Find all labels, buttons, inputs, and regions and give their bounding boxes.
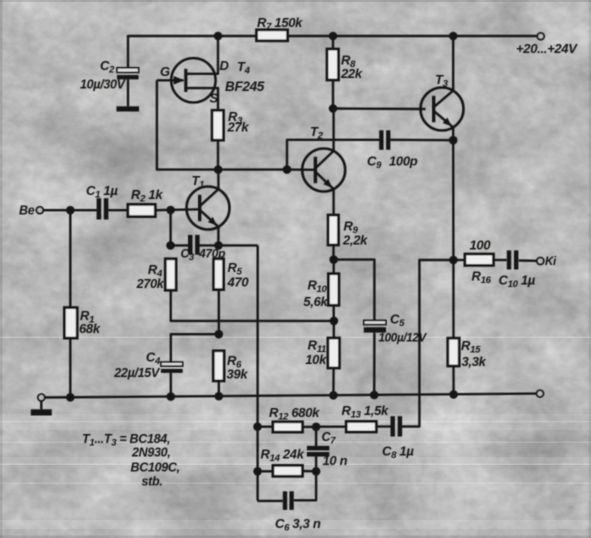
svg-text:C6​ 3,3 n: C6​ 3,3 n: [275, 516, 321, 534]
node R6 top junction: [215, 330, 224, 339]
wire C2 to ground: [127, 79, 129, 106]
transistor T4 gate arrow: [174, 76, 185, 85]
node T3 collector-rail junction: [449, 32, 458, 41]
svg-text:470: 470: [227, 275, 250, 290]
label T4: [237, 59, 251, 77]
wire T4 drain lead: [186, 36, 218, 74]
wire C6 right lead: [294, 471, 316, 500]
label C10 1u: [499, 273, 536, 291]
wire T1 emitter: [217, 227, 219, 246]
label T1: [192, 173, 205, 191]
wire R3 to node: [217, 140, 219, 169]
label C9: [367, 154, 382, 172]
wire R11 leads: [332, 321, 335, 395]
terminal +24V: [537, 33, 544, 40]
label R5: [228, 260, 243, 278]
label C1 1u: [86, 183, 118, 201]
wire R4 bottom lead: [171, 290, 334, 321]
label R12 680k: [269, 405, 320, 423]
resistor R16: [465, 254, 494, 265]
capacitor C8: [391, 416, 403, 436]
label C3: [181, 247, 195, 264]
resistor R15: [448, 338, 459, 366]
wire T3 collector: [452, 36, 454, 91]
svg-text:68k: 68k: [79, 321, 101, 336]
svg-text:BF245: BF245: [225, 79, 265, 94]
svg-text:10µ/30V: 10µ/30V: [80, 78, 127, 92]
label C3 value 470p: [198, 247, 225, 261]
label R16 value 100: [470, 238, 492, 253]
node C3 left junction: [166, 241, 175, 250]
ground symbol: [31, 402, 52, 416]
wire gate loop: [157, 80, 287, 169]
wire T3 emitter lead: [452, 127, 454, 140]
label R4: [148, 262, 163, 280]
node drain-rail junction: [214, 32, 223, 41]
resistor R14: [273, 465, 303, 476]
wire C4 top lead: [171, 334, 219, 362]
transistor T3: [421, 88, 464, 131]
svg-text:100: 100: [470, 238, 492, 253]
capacitor C4: [161, 362, 183, 373]
node R15-rail junction: [449, 390, 458, 399]
label T3: [435, 72, 449, 90]
label C7 value 10n: [323, 453, 348, 468]
wire C8 feedback: [402, 260, 453, 427]
wire C8-R13: [376, 425, 390, 427]
node R14 right junction: [312, 467, 321, 476]
label R15 value 3,3k: [462, 354, 487, 369]
node T1 base junction: [166, 206, 175, 215]
wire T2 collector: [332, 109, 334, 151]
node R12 left junction: [253, 422, 262, 431]
label Be: [19, 204, 35, 218]
wire top +24V supply rail: [128, 35, 536, 37]
wire C3 left lead: [171, 244, 189, 246]
wire R15 bottom lead: [452, 366, 455, 394]
svg-text:Ki: Ki: [545, 256, 557, 268]
svg-text:D: D: [220, 58, 230, 73]
node T3 emitter junction: [449, 136, 458, 145]
label C6 3,3n: [275, 516, 321, 534]
label T2: [310, 124, 324, 142]
wire output column upper: [452, 140, 455, 260]
label R13 1,5k: [342, 403, 390, 421]
wire R13 left lead: [316, 426, 346, 428]
node R6-rail junction: [215, 392, 224, 401]
wire R8 top lead: [332, 36, 334, 49]
label R2 1k: [131, 187, 163, 205]
resistor R9: [328, 215, 338, 245]
node R1 tap: [66, 206, 75, 215]
wire R14 left column: [256, 427, 258, 501]
svg-text:C8​ 1µ: C8​ 1µ: [382, 444, 414, 462]
svg-text:R7​ 150k: R7​ 150k: [257, 15, 303, 33]
resistor R1: [64, 308, 77, 339]
label G: [160, 64, 170, 79]
svg-text:BC109C,: BC109C,: [131, 461, 180, 475]
label Ki: [545, 256, 557, 268]
capacitor C2: [117, 68, 139, 80]
capacitor C9: [379, 130, 390, 150]
label R15: [461, 338, 481, 356]
label C5 value 100u/12V: [379, 332, 428, 345]
label C5: [390, 312, 405, 330]
wire emitter node to feedback corner: [219, 244, 258, 246]
wire T1 collector: [217, 170, 219, 190]
resistor R7: [257, 30, 288, 41]
wire C10 to Ki: [519, 259, 537, 262]
label C4 value 22u/15V: [113, 366, 161, 380]
wire T2 emitter: [332, 189, 334, 215]
label BF245: [225, 79, 265, 94]
resistor R3: [212, 110, 223, 140]
label note line2: [131, 446, 171, 460]
wire T1 feedback column: [256, 245, 259, 426]
label R10: [307, 278, 327, 296]
wire R14 right lead: [303, 470, 317, 473]
svg-text:C10​ 1µ: C10​ 1µ: [499, 273, 536, 291]
svg-text:5,6k: 5,6k: [303, 294, 328, 309]
transistor T1: [187, 187, 230, 230]
capacitor C6: [283, 491, 294, 510]
node R14 left junction: [253, 467, 262, 476]
svg-text:10k: 10k: [305, 352, 327, 367]
svg-text:R13​ 1,5k: R13​ 1,5k: [342, 403, 390, 421]
label +20...+24V: [516, 41, 578, 56]
resistor R10: [328, 274, 339, 306]
label note line4: [142, 475, 163, 489]
capacitor C5: [364, 320, 386, 332]
op FET T4 circle: [171, 58, 215, 102]
wire R12 left lead: [258, 426, 273, 428]
wire C4 bottom lead: [170, 373, 172, 397]
resistor R2: [128, 204, 155, 216]
wire to C5: [334, 260, 375, 321]
scan bands: [0, 337, 591, 530]
node C5-rail junction: [370, 391, 379, 400]
svg-text:stb.: stb.: [142, 475, 163, 489]
svg-text:S: S: [210, 91, 219, 106]
label R7 150k: [257, 15, 303, 33]
wire C9 right: [390, 139, 454, 142]
label R6: [227, 353, 242, 371]
wire C1 to R2: [108, 209, 128, 211]
svg-text:2N930,: 2N930,: [131, 446, 171, 460]
terminal Ki output: [537, 258, 544, 265]
label C2: [100, 58, 115, 76]
label R10 value 5,6k: [303, 294, 328, 309]
resistor R4: [165, 259, 176, 290]
label R9 value 2,2k: [342, 233, 368, 248]
label R8 value 22k: [340, 66, 363, 81]
wire C7 bottom lead: [315, 456, 317, 471]
wire C3 right lead: [199, 244, 218, 246]
label C9 value 100p: [389, 154, 418, 169]
label R9: [344, 219, 359, 237]
label R16: [472, 269, 492, 287]
node C4-rail junction: [167, 392, 176, 401]
svg-text:22µ/15V: 22µ/15V: [113, 366, 161, 380]
label R8: [341, 53, 356, 71]
wire C5 bottom lead: [373, 333, 376, 395]
wire R2 to T1 base: [155, 208, 200, 211]
capacitor C7: [307, 446, 329, 457]
wire C2 to rail: [127, 35, 129, 68]
label R6 value 39k: [227, 367, 249, 382]
capacitor C1: [97, 198, 109, 219]
label note line1: [82, 432, 170, 449]
label D: [220, 58, 230, 73]
label R3 value: [227, 120, 250, 135]
label S: [210, 91, 219, 106]
wire C9 left: [287, 140, 380, 170]
node R11-rail junction: [329, 391, 338, 400]
terminal ground-rail right: [537, 390, 544, 397]
svg-text:Be: Be: [19, 204, 35, 218]
terminal Be input: [36, 207, 43, 214]
node R16 junction: [449, 256, 458, 265]
wire T4 source lead: [186, 88, 218, 110]
wire T4 gate lead: [157, 79, 184, 81]
label note line3: [131, 461, 180, 475]
svg-text:3,3k: 3,3k: [462, 354, 487, 369]
node R11 top junction: [330, 317, 339, 326]
label R11 value 10k: [305, 352, 327, 367]
svg-text:27k: 27k: [227, 120, 250, 135]
node T1 collector junction: [214, 165, 223, 174]
svg-text:+20...+24V: +20...+24V: [516, 41, 578, 56]
svg-text:R2​ 1k: R2​ 1k: [131, 187, 163, 205]
svg-text:R14​ 24k: R14​ 24k: [261, 447, 305, 465]
label C8 1u: [382, 444, 414, 462]
wire input: [43, 209, 96, 211]
label R5 value 470: [227, 275, 250, 290]
label R3 27k: [228, 109, 243, 127]
wire R16 left lead: [453, 259, 465, 261]
resistor R13: [346, 421, 376, 432]
svg-text:2,2k: 2,2k: [342, 233, 368, 248]
label R14 24k: [261, 447, 305, 465]
node R1-rail junction: [66, 393, 75, 402]
resistor R5: [214, 259, 224, 290]
resistor R8: [327, 49, 339, 80]
capacitor C3: [188, 235, 200, 255]
wire R5 bottom lead: [218, 290, 220, 335]
svg-text:39k: 39k: [227, 367, 249, 382]
svg-text:10 n: 10 n: [323, 453, 348, 468]
label R4 value 270k: [136, 277, 165, 291]
wire R14 left lead: [258, 470, 273, 472]
wire R8 bottom lead: [332, 80, 334, 109]
wire T3 base: [333, 107, 426, 110]
wire R10 leads: [333, 260, 335, 321]
resistor R6: [213, 351, 224, 381]
wire R1 bottom lead: [69, 338, 71, 397]
wire R12 right lead: [303, 426, 317, 428]
svg-text:R12​ 680k: R12​ 680k: [269, 405, 320, 423]
wire base column: [169, 210, 171, 245]
wire output column lower: [452, 260, 455, 338]
label C4: [146, 350, 161, 368]
svg-text:270k: 270k: [136, 277, 165, 291]
label R11: [308, 338, 326, 356]
node C7 top junction: [312, 423, 321, 432]
node R8-rail junction: [329, 32, 338, 41]
ground below C2: [117, 106, 140, 111]
wire R9 bottom lead: [332, 245, 334, 260]
transistor T2: [302, 149, 345, 192]
label C7: [322, 430, 337, 447]
label C2 value 10u/30V: [80, 78, 127, 92]
wire C7 top lead: [315, 427, 317, 446]
terminal ground-rail left: [38, 394, 45, 401]
resistor R12: [273, 422, 303, 432]
node T2 base junction: [283, 165, 292, 174]
wire C6 left lead: [258, 500, 283, 502]
label R1: [80, 308, 94, 326]
node T1 emitter junction: [214, 241, 223, 250]
transistor T4 channel bar: [184, 69, 187, 92]
wire R16-C10: [494, 259, 507, 261]
resistor R11: [328, 338, 340, 368]
svg-text:C1​ 1µ: C1​ 1µ: [86, 183, 118, 201]
wire R6 bottom lead: [218, 381, 220, 396]
svg-text:22k: 22k: [340, 66, 363, 81]
capacitor C10: [507, 250, 519, 269]
node T3 base junction: [329, 104, 338, 113]
wire R1 top lead: [69, 210, 71, 307]
svg-text:100p: 100p: [389, 154, 418, 169]
svg-text:G: G: [160, 64, 170, 79]
label R1 value 68k: [79, 321, 101, 336]
wire T2 base: [287, 168, 315, 171]
node R10 top junction: [329, 255, 338, 264]
wire ground rail: [41, 394, 536, 398]
